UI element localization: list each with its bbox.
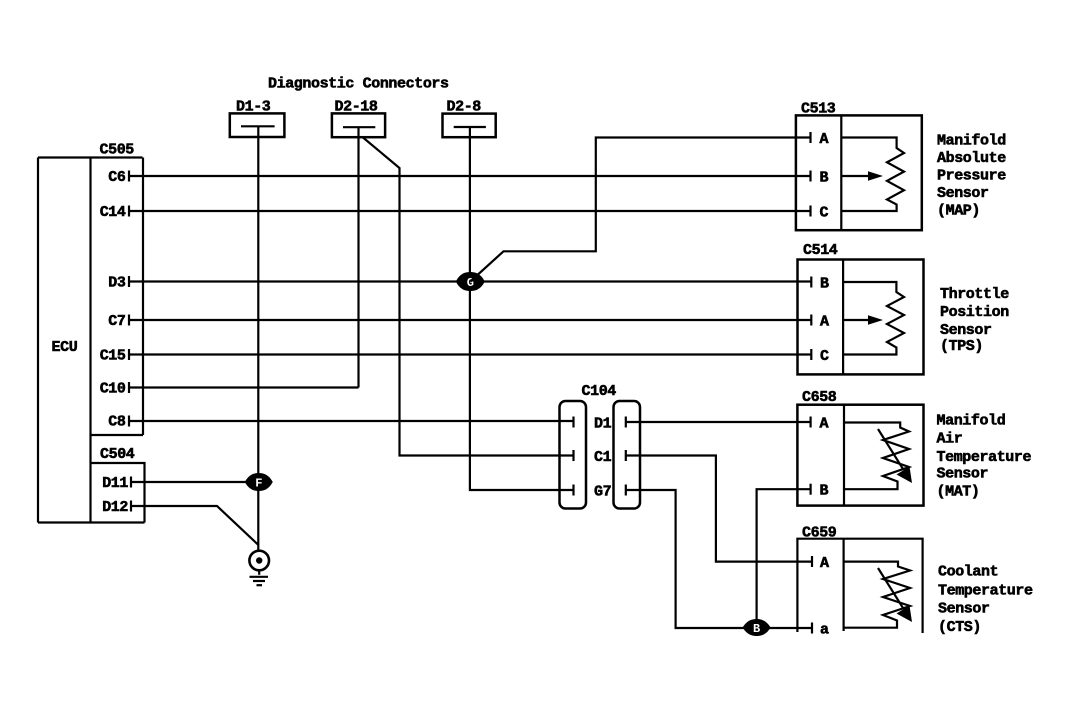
svg-text:C504: C504	[100, 446, 135, 463]
svg-text:Diagnostic Connectors: Diagnostic Connectors	[268, 76, 449, 93]
resistor MAP sensor element	[841, 138, 904, 212]
svg-text:F: F	[255, 477, 262, 491]
svg-text:C658: C658	[802, 389, 837, 406]
svg-text:D12: D12	[102, 499, 128, 516]
connector C658 box	[797, 405, 923, 506]
svg-text:C14: C14	[100, 204, 126, 221]
pin A tick and label	[809, 417, 811, 428]
node B	[743, 619, 771, 636]
svg-text:C10: C10	[100, 381, 126, 398]
pin D1 ticks	[572, 417, 574, 428]
pin B tick and label	[809, 171, 811, 182]
svg-text:Manifold: Manifold	[937, 412, 1006, 429]
svg-text:Absolute: Absolute	[937, 150, 1006, 167]
thermistor MAT sensor element	[844, 423, 909, 490]
svg-text:C514: C514	[803, 242, 838, 259]
ECU divider	[89, 158, 91, 523]
ground symbol	[249, 551, 269, 571]
svg-text:(TPS): (TPS)	[940, 338, 983, 355]
pin D3 tick	[128, 276, 130, 287]
connector D2-8 terminal bar	[454, 126, 486, 128]
pin C1 ticks	[572, 450, 574, 461]
pin B tick and label	[810, 277, 812, 288]
pin C tick and label	[810, 349, 812, 360]
pin D11 tick	[130, 477, 132, 488]
connector D2-18 terminal bar	[343, 126, 375, 128]
svg-text:(MAP): (MAP)	[937, 203, 980, 220]
wiper arrow C514	[843, 319, 868, 321]
connector D1-3 box	[230, 113, 285, 137]
svg-text:B: B	[820, 483, 829, 500]
svg-text:Coolant: Coolant	[938, 563, 998, 580]
svg-text:A: A	[820, 313, 829, 330]
wire D1-3 stem to ground	[257, 126, 259, 551]
wire C8 to C104 pin D1	[129, 420, 574, 422]
thermistor CTS sensor element	[844, 562, 910, 628]
svg-text:Sensor: Sensor	[940, 322, 992, 339]
pin G7 ticks	[572, 485, 574, 496]
svg-text:Position: Position	[940, 304, 1009, 321]
svg-text:Sensor: Sensor	[938, 601, 990, 618]
svg-text:D1: D1	[594, 415, 612, 432]
svg-text:A: A	[820, 131, 829, 148]
svg-text:Sensor: Sensor	[937, 465, 989, 482]
svg-text:a: a	[820, 621, 829, 638]
pin C14 tick	[128, 206, 130, 217]
resistor TPS sensor element	[843, 282, 904, 355]
wire C6 to C513 pin B	[129, 175, 811, 177]
svg-text:Sensor: Sensor	[937, 185, 989, 202]
pin C6 tick	[128, 171, 130, 182]
wire C14 to C513 pin C	[129, 210, 811, 212]
svg-text:C6: C6	[108, 169, 126, 186]
svg-text:Temperature: Temperature	[938, 583, 1033, 600]
connector C658 divider	[843, 405, 845, 506]
svg-text:C104: C104	[582, 383, 617, 400]
wire D12 to ground stem	[131, 506, 258, 545]
thermistor arrow C658	[878, 429, 903, 469]
wire C104 G7 to node B to C659 pin B	[626, 490, 812, 628]
svg-text:(MAT): (MAT)	[937, 484, 980, 501]
svg-text:B: B	[753, 622, 760, 636]
connector C504 box	[92, 463, 145, 523]
svg-text:A: A	[820, 555, 829, 572]
connector C513 divider	[840, 115, 842, 230]
pin C7 tick	[128, 315, 130, 326]
svg-text:G7: G7	[594, 483, 611, 500]
svg-text:C: C	[820, 204, 829, 221]
pin A tick and label	[809, 132, 811, 143]
wire node G to C513 pin A	[470, 138, 810, 282]
svg-text:D3: D3	[108, 275, 126, 292]
svg-text:C: C	[820, 348, 829, 365]
svg-text:C8: C8	[108, 414, 126, 431]
wire D2-8 stem through node G to C104 G7	[470, 127, 574, 490]
svg-text:Air: Air	[937, 431, 963, 448]
svg-text:B: B	[820, 169, 829, 186]
svg-text:C505: C505	[100, 142, 135, 159]
svg-text:Throttle: Throttle	[940, 286, 1009, 303]
connector C505 bottom edge	[91, 434, 144, 436]
svg-text:Pressure: Pressure	[937, 168, 1006, 185]
connector C659 box cut at bottom	[797, 539, 922, 633]
connector C514 divider	[842, 260, 844, 375]
wire C7 to C514 pin A	[129, 319, 811, 321]
svg-text:Temperature: Temperature	[937, 449, 1032, 466]
pin D12 tick	[130, 501, 132, 512]
wire C15 to C514 pin C	[129, 353, 811, 355]
connector C513 box	[796, 115, 922, 230]
pin B tick and label	[809, 484, 811, 495]
wire D2-18 diagonal branch	[363, 138, 574, 456]
thermistor arrow C659	[878, 568, 903, 608]
pin C tick and label	[809, 206, 811, 217]
svg-text:Manifold: Manifold	[937, 133, 1006, 150]
pin C15 tick	[128, 349, 130, 360]
connector D2-8 box	[443, 114, 496, 138]
wire D2-18 stem to C10 row	[357, 127, 359, 387]
wire D3 to C514 pin B through node G	[129, 280, 811, 282]
svg-text:(CTS): (CTS)	[938, 619, 981, 636]
pin C10 tick	[128, 382, 130, 393]
svg-text:A: A	[820, 415, 829, 432]
connector D2-18 box	[332, 113, 385, 137]
svg-text:C7: C7	[108, 313, 125, 330]
pin A tick and label	[811, 556, 813, 567]
svg-text:C15: C15	[100, 348, 126, 365]
connector C505 right edge	[142, 158, 144, 436]
wiper arrow C513	[841, 175, 868, 177]
wire C104 D1 to C658 pin A	[626, 421, 811, 423]
connector C514 box	[798, 260, 924, 375]
svg-text:ECU: ECU	[52, 339, 78, 356]
node G	[456, 272, 485, 291]
node F	[245, 473, 273, 491]
ECU box	[37, 158, 39, 523]
connector C104 right half	[614, 401, 641, 509]
pin a tick and label	[811, 623, 813, 634]
wire D11 to node F	[131, 481, 258, 483]
wire C104 C1 to C659 pin A	[626, 456, 812, 562]
connector D1-3 terminal bar	[241, 125, 275, 127]
svg-text:B: B	[820, 275, 829, 292]
wire node B to C658 pin B	[757, 489, 811, 628]
connector C104 left half	[560, 401, 587, 509]
pin A tick and label	[810, 315, 812, 326]
svg-text:C1: C1	[594, 449, 612, 466]
wire C10 to D2-18 stem	[129, 386, 359, 388]
connector C659 divider	[842, 539, 844, 631]
svg-text:D11: D11	[102, 475, 128, 492]
pin C8 tick	[128, 416, 130, 427]
